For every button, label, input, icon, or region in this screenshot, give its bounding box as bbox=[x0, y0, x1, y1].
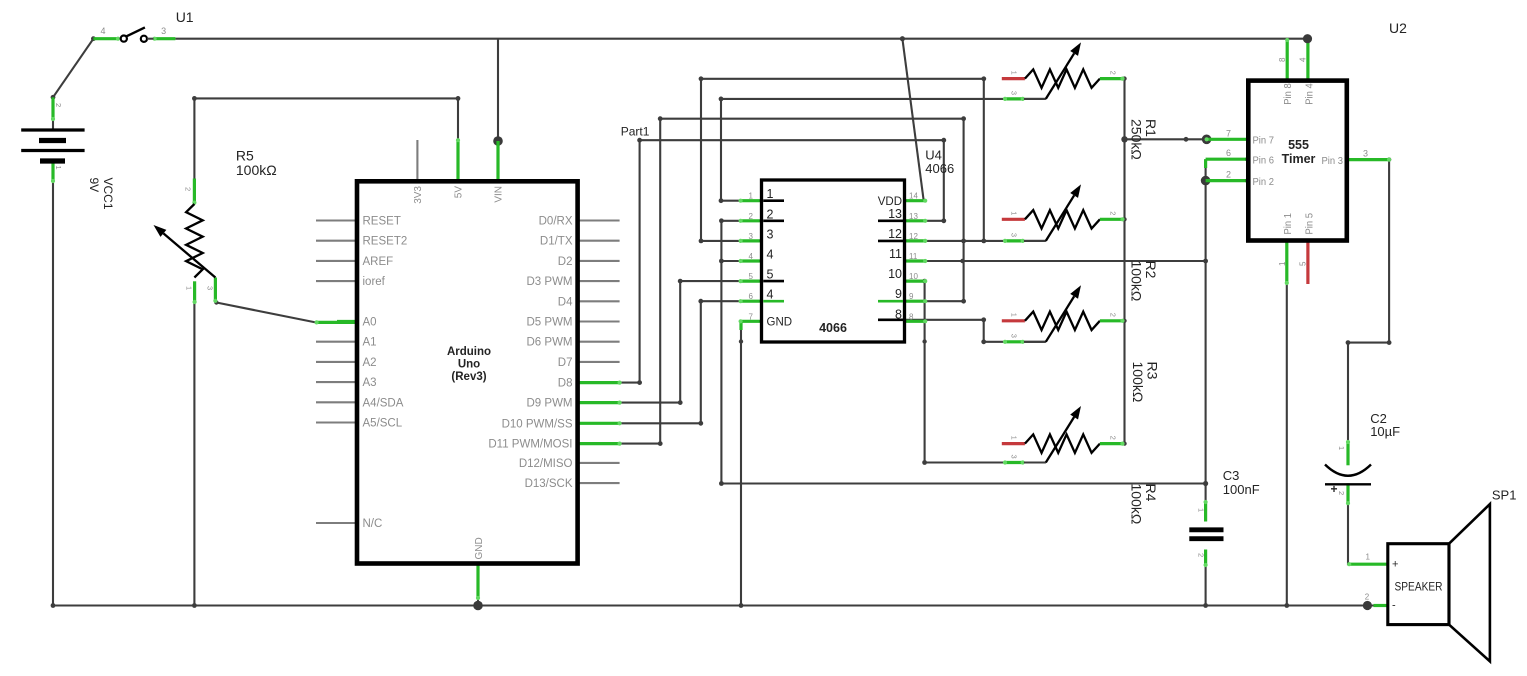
svg-text:8: 8 bbox=[909, 312, 914, 321]
svg-text:U1: U1 bbox=[176, 9, 194, 25]
svg-text:2: 2 bbox=[1337, 491, 1346, 495]
svg-text:1: 1 bbox=[54, 166, 63, 170]
svg-text:1: 1 bbox=[749, 192, 754, 201]
svg-text:Pin 3: Pin 3 bbox=[1322, 155, 1344, 167]
svg-text:6: 6 bbox=[749, 292, 754, 301]
svg-text:3: 3 bbox=[767, 227, 774, 241]
svg-text:4: 4 bbox=[767, 288, 774, 302]
svg-text:4066: 4066 bbox=[925, 161, 954, 176]
svg-text:3: 3 bbox=[749, 232, 754, 241]
svg-text:D0/RX: D0/RX bbox=[539, 216, 573, 228]
svg-text:2: 2 bbox=[1109, 211, 1118, 215]
svg-text:GND: GND bbox=[767, 317, 793, 329]
svg-text:ioref: ioref bbox=[363, 276, 386, 288]
svg-text:7: 7 bbox=[1226, 128, 1231, 138]
svg-text:(Rev3): (Rev3) bbox=[451, 371, 486, 383]
svg-text:13: 13 bbox=[888, 207, 902, 221]
svg-text:2: 2 bbox=[1109, 436, 1118, 440]
svg-text:2: 2 bbox=[749, 212, 754, 221]
svg-text:100kΩ: 100kΩ bbox=[1129, 261, 1145, 302]
svg-text:D10 PWM/SS: D10 PWM/SS bbox=[502, 418, 573, 430]
svg-text:A0: A0 bbox=[363, 317, 377, 329]
svg-text:GND: GND bbox=[474, 537, 485, 559]
svg-text:Pin 7: Pin 7 bbox=[1253, 135, 1275, 147]
svg-text:100kΩ: 100kΩ bbox=[1130, 362, 1146, 403]
svg-text:1: 1 bbox=[185, 286, 194, 290]
svg-text:D4: D4 bbox=[558, 296, 573, 308]
svg-text:VIN: VIN bbox=[494, 186, 505, 203]
svg-text:+: + bbox=[1392, 559, 1398, 571]
svg-text:2: 2 bbox=[54, 103, 63, 107]
svg-text:13: 13 bbox=[909, 212, 918, 221]
svg-text:555: 555 bbox=[1288, 138, 1309, 152]
svg-text:Pin 2: Pin 2 bbox=[1253, 176, 1275, 188]
svg-text:3: 3 bbox=[1363, 149, 1368, 159]
svg-text:Pin 1: Pin 1 bbox=[1282, 213, 1294, 235]
svg-text:7: 7 bbox=[749, 312, 754, 321]
svg-text:1: 1 bbox=[1365, 553, 1370, 562]
svg-text:8: 8 bbox=[895, 307, 902, 321]
svg-text:9: 9 bbox=[895, 287, 902, 301]
svg-text:U2: U2 bbox=[1389, 20, 1407, 36]
svg-text:Uno: Uno bbox=[458, 359, 480, 371]
svg-text:2: 2 bbox=[1226, 170, 1231, 180]
svg-text:10µF: 10µF bbox=[1370, 424, 1400, 439]
svg-text:1: 1 bbox=[1010, 71, 1019, 75]
svg-text:Pin 4: Pin 4 bbox=[1304, 83, 1316, 105]
svg-text:3: 3 bbox=[1010, 334, 1019, 338]
svg-text:SP1: SP1 bbox=[1492, 488, 1517, 503]
svg-text:C3: C3 bbox=[1223, 468, 1240, 483]
svg-text:Pin 8: Pin 8 bbox=[1282, 83, 1294, 105]
svg-text:11: 11 bbox=[909, 252, 918, 261]
svg-text:3: 3 bbox=[1010, 233, 1019, 237]
svg-text:Timer: Timer bbox=[1282, 152, 1316, 166]
svg-text:D9 PWM: D9 PWM bbox=[527, 398, 573, 410]
svg-text:Pin 5: Pin 5 bbox=[1304, 213, 1316, 235]
svg-text:6: 6 bbox=[1226, 148, 1231, 158]
svg-text:3: 3 bbox=[1010, 455, 1019, 459]
svg-text:2: 2 bbox=[1109, 71, 1118, 75]
svg-text:5: 5 bbox=[749, 272, 754, 281]
svg-text:D5 PWM: D5 PWM bbox=[527, 317, 573, 329]
svg-text:D8: D8 bbox=[558, 378, 573, 390]
svg-text:14: 14 bbox=[909, 192, 918, 201]
svg-text:4: 4 bbox=[749, 252, 754, 261]
svg-text:2: 2 bbox=[1365, 593, 1370, 602]
svg-text:D11 PWM/MOSI: D11 PWM/MOSI bbox=[488, 439, 572, 451]
svg-text:1: 1 bbox=[1010, 436, 1019, 440]
svg-text:100kΩ: 100kΩ bbox=[236, 162, 277, 178]
svg-text:2: 2 bbox=[184, 187, 193, 191]
svg-text:5: 5 bbox=[767, 268, 774, 282]
svg-text:12: 12 bbox=[909, 232, 918, 241]
svg-text:11: 11 bbox=[889, 247, 902, 261]
svg-text:A5/SCL: A5/SCL bbox=[363, 418, 403, 430]
svg-text:D7: D7 bbox=[558, 357, 573, 369]
svg-text:8: 8 bbox=[1278, 57, 1287, 62]
svg-text:Arduino: Arduino bbox=[447, 346, 491, 358]
svg-text:RESET2: RESET2 bbox=[363, 236, 408, 248]
svg-text:1: 1 bbox=[1337, 446, 1346, 450]
svg-text:1: 1 bbox=[1010, 313, 1019, 317]
svg-text:9: 9 bbox=[909, 292, 914, 301]
svg-text:D2: D2 bbox=[558, 256, 573, 268]
svg-text:Part1: Part1 bbox=[621, 125, 650, 139]
svg-text:1: 1 bbox=[1010, 211, 1019, 215]
svg-text:VCC1: VCC1 bbox=[101, 178, 115, 210]
svg-text:250kΩ: 250kΩ bbox=[1129, 119, 1145, 160]
svg-text:5V: 5V bbox=[454, 186, 465, 199]
svg-text:4: 4 bbox=[1299, 57, 1308, 62]
svg-text:3: 3 bbox=[161, 26, 166, 36]
svg-text:5: 5 bbox=[1299, 261, 1308, 266]
svg-text:A2: A2 bbox=[363, 357, 377, 369]
svg-text:Pin 6: Pin 6 bbox=[1253, 155, 1275, 167]
svg-text:3: 3 bbox=[1010, 91, 1019, 95]
svg-text:A4/SDA: A4/SDA bbox=[363, 397, 404, 409]
svg-text:D1/TX: D1/TX bbox=[540, 236, 573, 248]
svg-text:A3: A3 bbox=[363, 377, 377, 389]
svg-text:SPEAKER: SPEAKER bbox=[1395, 582, 1443, 594]
svg-text:100kΩ: 100kΩ bbox=[1129, 484, 1145, 525]
svg-text:AREF: AREF bbox=[363, 256, 394, 268]
svg-text:-: - bbox=[1392, 600, 1396, 612]
svg-text:A1: A1 bbox=[363, 337, 377, 349]
svg-text:1: 1 bbox=[1278, 261, 1287, 266]
svg-text:4: 4 bbox=[100, 26, 105, 36]
svg-text:10: 10 bbox=[909, 272, 918, 281]
svg-text:1: 1 bbox=[1197, 508, 1206, 512]
svg-text:D6 PWM: D6 PWM bbox=[527, 337, 573, 349]
svg-text:4: 4 bbox=[767, 248, 774, 262]
svg-text:1: 1 bbox=[767, 187, 774, 201]
svg-text:N/C: N/C bbox=[363, 518, 383, 530]
svg-text:10: 10 bbox=[888, 267, 902, 281]
svg-text:+: + bbox=[1331, 482, 1338, 496]
svg-text:D12/MISO: D12/MISO bbox=[519, 458, 573, 470]
svg-text:2: 2 bbox=[1197, 553, 1206, 557]
svg-text:2: 2 bbox=[1109, 313, 1118, 317]
svg-text:12: 12 bbox=[888, 227, 902, 241]
svg-text:3: 3 bbox=[206, 286, 215, 290]
svg-text:9V: 9V bbox=[87, 178, 101, 193]
svg-text:RESET: RESET bbox=[363, 216, 401, 228]
svg-text:2: 2 bbox=[767, 207, 774, 221]
svg-text:D13/SCK: D13/SCK bbox=[525, 478, 573, 490]
svg-text:100nF: 100nF bbox=[1223, 482, 1260, 497]
svg-text:D3 PWM: D3 PWM bbox=[527, 276, 573, 288]
svg-text:3V3: 3V3 bbox=[413, 186, 424, 204]
svg-text:4066: 4066 bbox=[819, 321, 847, 335]
